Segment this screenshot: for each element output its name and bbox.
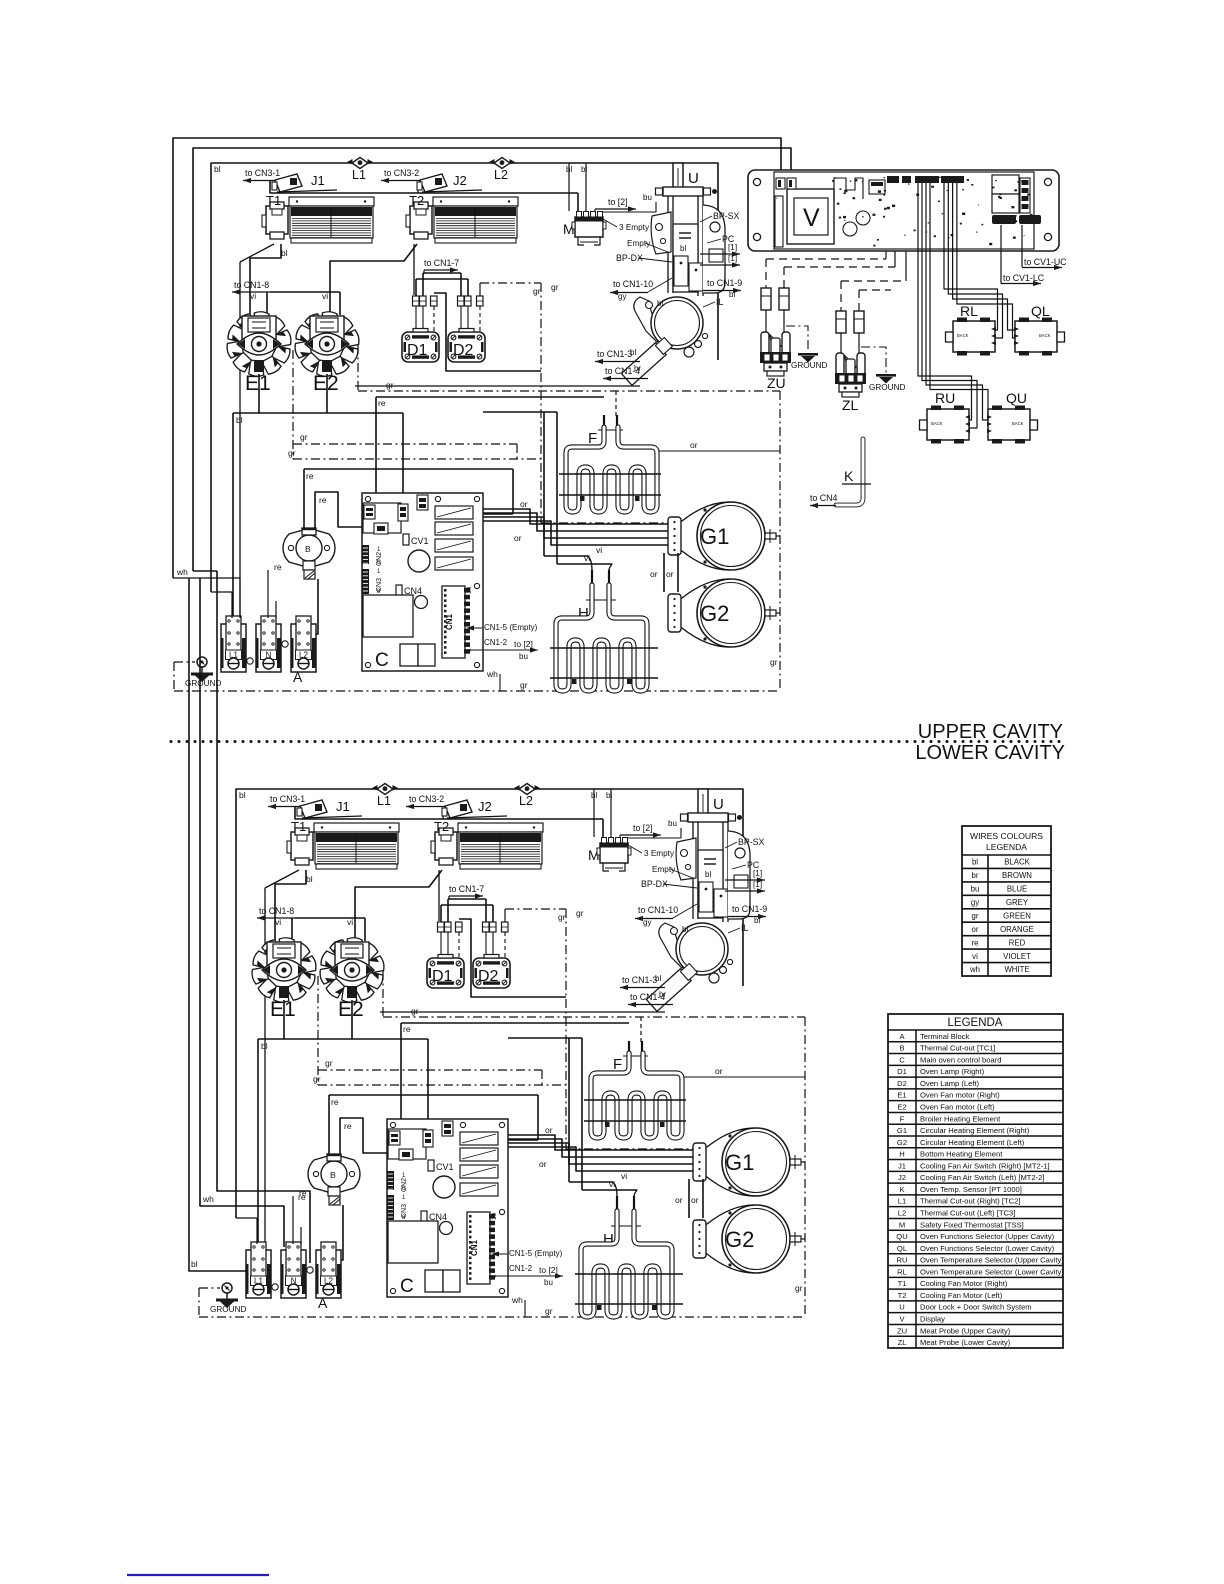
svg-text:G2: G2: [897, 1138, 907, 1147]
svg-text:GROUND: GROUND: [791, 361, 827, 370]
wire ZU ground: [786, 326, 808, 352]
fuse ZL-2: [854, 311, 864, 333]
svg-text:wh: wh: [969, 965, 980, 974]
svg-text:gy: gy: [971, 898, 979, 907]
svg-text:to CN4: to CN4: [810, 493, 837, 503]
label to CV1-UC: [1021, 225, 1023, 267]
svg-text:Oven Functions Selector (Lower: Oven Functions Selector (Lower Cavity): [920, 1244, 1055, 1253]
wire ZL leads: [840, 333, 842, 353]
svg-text:br: br: [972, 871, 979, 880]
svg-text:QL: QL: [1031, 303, 1050, 319]
svg-text:GROUND: GROUND: [869, 383, 905, 392]
svg-text:Bottom Heating Element: Bottom Heating Element: [920, 1150, 1003, 1159]
svg-text:LEGENDA: LEGENDA: [948, 1017, 1003, 1029]
svg-text:Circular Heating Element (Left: Circular Heating Element (Left): [920, 1138, 1025, 1147]
svg-text:F: F: [900, 1114, 905, 1123]
svg-text:T1: T1: [898, 1279, 907, 1288]
svg-text:UPPER CAVITY: UPPER CAVITY: [918, 721, 1063, 743]
svg-text:L2: L2: [898, 1209, 906, 1218]
wire trunk re: [193, 570, 217, 572]
wire ZU dashed: [885, 251, 887, 259]
svg-text:Oven Lamp (Right): Oven Lamp (Right): [920, 1067, 985, 1076]
svg-text:K: K: [844, 468, 854, 484]
svg-text:Meat Probe (Lower Cavity): Meat Probe (Lower Cavity): [920, 1338, 1011, 1347]
svg-text:BLACK: BLACK: [1004, 858, 1030, 867]
svg-text:Terminal Block: Terminal Block: [920, 1032, 970, 1041]
svg-text:Oven Fan motor (Left): Oven Fan motor (Left): [920, 1103, 995, 1112]
svg-text:RU: RU: [897, 1256, 908, 1265]
fuse ZU-2: [779, 288, 789, 310]
svg-text:RED: RED: [1009, 938, 1026, 947]
svg-text:U: U: [899, 1303, 904, 1312]
svg-text:C: C: [899, 1055, 905, 1064]
svg-text:E1: E1: [897, 1091, 906, 1100]
svg-text:to CV1-LC: to CV1-LC: [1003, 273, 1045, 283]
svg-text:Meat Probe (Upper Cavity): Meat Probe (Upper Cavity): [920, 1326, 1011, 1335]
svg-text:Circular Heating Element (Righ: Circular Heating Element (Right): [920, 1126, 1030, 1135]
svg-text:GREEN: GREEN: [1003, 911, 1031, 920]
svg-text:LEGENDA: LEGENDA: [986, 842, 1027, 852]
svg-text:Cooling Fan Air Switch (Right): Cooling Fan Air Switch (Right) [MT2-1]: [920, 1161, 1050, 1170]
svg-text:VIOLET: VIOLET: [1003, 952, 1031, 961]
ground ZU: [798, 353, 818, 363]
wire ZL ground: [861, 347, 886, 373]
wire trunk wh: [200, 578, 284, 1247]
svg-text:H: H: [899, 1150, 904, 1159]
svg-text:Oven Functions Selector (Upper: Oven Functions Selector (Upper Cavity): [920, 1232, 1055, 1241]
svg-text:Cooling Fan Air Switch (Left): Cooling Fan Air Switch (Left) [MT2-2]: [920, 1173, 1045, 1182]
svg-text:bu: bu: [971, 885, 980, 894]
svg-text:bl: bl: [191, 1259, 198, 1269]
svg-text:Display: Display: [920, 1315, 945, 1324]
svg-text:gr: gr: [972, 911, 979, 920]
svg-text:D2: D2: [897, 1079, 907, 1088]
wire wh run: [173, 577, 240, 579]
wire ZU leads: [765, 310, 767, 332]
svg-text:LOWER CAVITY: LOWER CAVITY: [915, 742, 1065, 764]
svg-text:Door Lock + Door Switch System: Door Lock + Door Switch System: [920, 1303, 1032, 1312]
svg-text:vi: vi: [972, 952, 978, 961]
svg-text:Thermal Cut-out [TC1]: Thermal Cut-out [TC1]: [920, 1044, 996, 1053]
svg-text:wh: wh: [202, 1194, 214, 1204]
svg-text:ZL: ZL: [898, 1338, 907, 1347]
svg-text:J2: J2: [898, 1173, 906, 1182]
wire selector bundle: [918, 183, 972, 420]
svg-text:ZU: ZU: [767, 375, 786, 391]
svg-text:ORANGE: ORANGE: [1000, 925, 1034, 934]
svg-text:T2: T2: [898, 1291, 907, 1300]
ground ZL: [876, 374, 896, 384]
upper cavity: [174, 158, 780, 692]
svg-text:Oven Temperature Selector (Upp: Oven Temperature Selector (Upper Cavity): [920, 1256, 1064, 1265]
svg-text:QL: QL: [897, 1244, 907, 1253]
svg-text:WIRES COLOURS: WIRES COLOURS: [970, 831, 1043, 841]
svg-text:Thermal Cut-out (Left) [TC3]: Thermal Cut-out (Left) [TC3]: [920, 1209, 1015, 1218]
svg-text:RL: RL: [960, 303, 978, 319]
svg-text:Cooling Fan Motor (Right): Cooling Fan Motor (Right): [920, 1279, 1008, 1288]
display board V: [748, 170, 1059, 251]
fuse ZL-1: [836, 311, 846, 333]
svg-text:re: re: [972, 938, 979, 947]
svg-text:J1: J1: [898, 1161, 906, 1170]
svg-text:D1: D1: [897, 1067, 907, 1076]
lower cavity: [199, 784, 805, 1318]
svg-text:bl: bl: [972, 858, 978, 867]
svg-text:Broiler Heating Element: Broiler Heating Element: [920, 1114, 1001, 1123]
wires colours legenda table: [962, 826, 1051, 976]
svg-text:K: K: [899, 1185, 904, 1194]
svg-text:WHITE: WHITE: [1004, 965, 1029, 974]
svg-text:GREY: GREY: [1006, 898, 1029, 907]
svg-text:to CV1-UC: to CV1-UC: [1024, 257, 1067, 267]
svg-text:E2: E2: [897, 1103, 906, 1112]
svg-text:G1: G1: [897, 1126, 907, 1135]
svg-text:BLUE: BLUE: [1007, 885, 1027, 894]
blue footer line: [127, 1574, 269, 1576]
fuse ZU-1: [761, 288, 771, 310]
svg-text:BROWN: BROWN: [1002, 871, 1032, 880]
svg-text:Oven Fan motor (Right): Oven Fan motor (Right): [920, 1091, 1000, 1100]
svg-text:Cooling Fan Motor (Left): Cooling Fan Motor (Left): [920, 1291, 1003, 1300]
svg-text:RL: RL: [897, 1267, 907, 1276]
meat probe ZL: [835, 353, 866, 397]
meat probe ZU: [760, 332, 791, 376]
svg-text:wh: wh: [176, 567, 188, 577]
svg-text:re: re: [298, 1192, 306, 1202]
svg-text:Oven Lamp (Left): Oven Lamp (Left): [920, 1079, 980, 1088]
svg-text:Safety Fixed Thermostat [TSS]: Safety Fixed Thermostat [TSS]: [920, 1220, 1024, 1229]
divider dotted line: [170, 740, 173, 743]
legenda table: [888, 1014, 1063, 1348]
svg-text:ZU: ZU: [897, 1326, 907, 1335]
svg-text:ZL: ZL: [842, 397, 859, 413]
svg-text:Thermal Cut-out (Right) [TC2]: Thermal Cut-out (Right) [TC2]: [920, 1197, 1020, 1206]
svg-text:M: M: [899, 1220, 905, 1229]
svg-text:Oven Temperature Selector (Low: Oven Temperature Selector (Lower Cavity): [920, 1267, 1064, 1276]
svg-text:B: B: [899, 1044, 904, 1053]
svg-text:L1: L1: [898, 1197, 906, 1206]
svg-text:QU: QU: [896, 1232, 907, 1241]
svg-text:or: or: [972, 925, 979, 934]
oven temp sensor K: [836, 439, 863, 505]
wire frame outer: [173, 138, 781, 578]
svg-text:V: V: [803, 204, 820, 232]
wire trunk bl: [189, 578, 247, 1271]
svg-text:Oven Temp. Sensor [PT 1000]: Oven Temp. Sensor [PT 1000]: [920, 1185, 1022, 1194]
svg-text:RU: RU: [935, 390, 955, 406]
svg-text:QU: QU: [1006, 390, 1027, 406]
svg-text:Main oven control board: Main oven control board: [920, 1055, 1001, 1064]
wire frame inner: [193, 148, 791, 571]
